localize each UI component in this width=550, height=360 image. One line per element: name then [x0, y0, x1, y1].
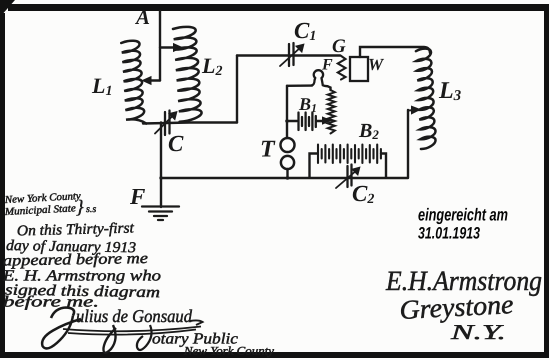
svg-text:T: T: [260, 137, 276, 163]
battery B1: [299, 113, 316, 131]
wire L3 tap vertical: [407, 110, 409, 178]
telephone receiver T lower coil: [281, 156, 294, 169]
arrow tap into L1: [143, 77, 152, 85]
capacitor C arrow: [155, 115, 174, 134]
arrow tap into L2: [174, 44, 183, 52]
svg-text:New York County: New York County: [183, 346, 275, 358]
svg-text:31.01.1913: 31.01.1913: [418, 225, 480, 243]
junction at F: [159, 176, 162, 179]
svg-text:N.Y.: N.Y.: [449, 320, 506, 344]
svg-text:ulius de Gonsaud: ulius de Gonsaud: [76, 306, 193, 326]
wire filament right to rheostat: [328, 86, 331, 90]
svg-text:C2: C2: [352, 181, 374, 207]
capacitor C2 arrow: [336, 170, 357, 188]
svg-text:W: W: [368, 55, 385, 74]
capacitor C2 plates: [348, 165, 352, 188]
wire B2 left bracket: [310, 154, 318, 178]
border frame left bar: [0, 13, 5, 353]
wire B1 right lead with arrow: [317, 120, 326, 122]
wire C1 horizontal: [237, 54, 340, 56]
svg-text:G: G: [332, 36, 346, 57]
svg-text:F: F: [321, 57, 333, 74]
inductor L3: [416, 49, 436, 149]
svg-text:L3: L3: [438, 78, 462, 104]
capacitor C plates: [165, 111, 170, 136]
svg-text:B1: B1: [298, 94, 317, 115]
junction B1 left: [285, 119, 289, 123]
inductor L1: [121, 41, 146, 124]
svg-text:B2: B2: [358, 120, 379, 142]
wire tap to L2: [160, 46, 176, 48]
signature Julius big J hook: [51, 308, 74, 319]
svg-text:On this Thirty-first: On this Thirty-first: [17, 220, 135, 239]
wire L2-bottom up to C1: [236, 56, 238, 123]
wire tap to L1: [148, 79, 160, 81]
wire bottom of L1/L2: [143, 123, 237, 124]
filament loop: [312, 70, 328, 86]
battery B2: [318, 145, 381, 164]
notary J flourish: [137, 325, 152, 350]
corner notch top-left: [0, 0, 15, 17]
svg-text:s.s: s.s: [86, 204, 96, 215]
signature end flourish: [190, 320, 203, 325]
svg-text:eingereicht am: eingereicht am: [418, 205, 508, 225]
wire antenna A vertical: [159, 11, 161, 81]
ground symbol: [142, 207, 179, 221]
svg-text:C1: C1: [294, 18, 316, 44]
signature second descender loop: [103, 325, 116, 353]
svg-text:}: }: [76, 197, 84, 218]
wire B1 left vertical: [286, 86, 288, 138]
inductor L2: [173, 27, 202, 122]
svg-text:C: C: [168, 131, 184, 156]
junction T bottom: [286, 176, 290, 180]
border frame top bar: [8, 4, 549, 11]
svg-text:A: A: [134, 5, 150, 29]
signature underline flourish: [63, 327, 201, 335]
grid zigzag G: [338, 56, 346, 80]
plate W rectangle: [350, 57, 368, 81]
wire B2 right bracket: [381, 154, 386, 178]
arrow into rheostat: [323, 117, 331, 124]
wire B1 left lead: [287, 120, 297, 122]
capacitor C1 plates: [289, 43, 294, 66]
svg-text:L1: L1: [91, 73, 112, 99]
svg-text:L2: L2: [201, 53, 222, 79]
signature Julius J descender loop: [42, 316, 81, 349]
border frame bottom bar: [0, 352, 549, 358]
rheostat zigzag: [328, 90, 335, 134]
capacitor C1 arrow: [280, 47, 301, 66]
arrow tap into L3: [408, 109, 413, 111]
telephone receiver T upper coil: [281, 138, 295, 152]
svg-text:F: F: [129, 184, 145, 209]
wire T to rail: [286, 169, 288, 178]
wire filament left leg to B1 rail: [287, 84, 312, 87]
wire down from C to ground junction: [160, 123, 162, 208]
border frame right bar: [544, 4, 549, 354]
wire bottom rail: [161, 177, 408, 179]
wire W to top and over to L3: [360, 47, 430, 57]
